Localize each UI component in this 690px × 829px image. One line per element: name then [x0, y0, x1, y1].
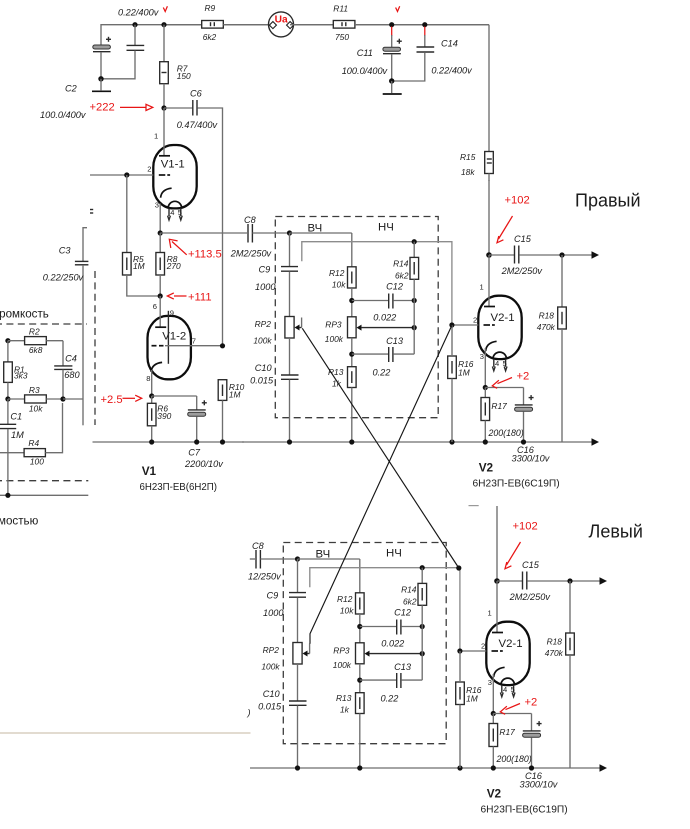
svg-text:6k8: 6k8	[29, 345, 43, 355]
svg-text:C6: C6	[190, 89, 203, 99]
svg-text:0.22/250v: 0.22/250v	[43, 272, 85, 282]
svg-text:R15: R15	[460, 152, 476, 162]
capacitor 0.22/400v left	[132, 22, 137, 27]
triode V1-1 envelope	[153, 145, 196, 208]
svg-text:1M: 1M	[11, 430, 24, 440]
gray fragment near left supply start	[469, 505, 479, 507]
svg-text:): )	[247, 708, 251, 718]
svg-text:3k3: 3k3	[14, 370, 28, 380]
svg-text:9: 9	[170, 308, 174, 317]
ground bus volume	[0, 494, 88, 496]
node grid R5	[124, 172, 129, 177]
svg-text:1M: 1M	[229, 390, 241, 400]
svg-text:+2.5: +2.5	[101, 394, 123, 406]
ground right	[389, 78, 394, 83]
svg-text:C7: C7	[188, 448, 201, 458]
svg-text:6Н23П-ЕВ(6Н2П): 6Н23П-ЕВ(6Н2П)	[140, 482, 217, 493]
svg-text:750: 750	[335, 32, 349, 42]
svg-text:C1: C1	[10, 412, 22, 422]
capacitor C11 electrolytic	[389, 22, 394, 27]
resistor R7	[163, 25, 165, 62]
svg-text:R11: R11	[333, 4, 348, 14]
svg-text:V1-1: V1-1	[161, 158, 185, 170]
svg-text:Правый: Правый	[575, 191, 641, 211]
svg-text:6k2: 6k2	[203, 32, 217, 42]
resistor R9	[167, 24, 202, 26]
tan artifact line	[0, 732, 251, 734]
svg-text:+113.5: +113.5	[188, 249, 222, 261]
cathode V1-1	[161, 188, 172, 198]
heater V1-1	[168, 201, 182, 208]
svg-text:4: 4	[170, 208, 174, 217]
svg-text:R2: R2	[29, 327, 40, 337]
svg-text:390: 390	[157, 411, 171, 421]
svg-text:0.22/400v: 0.22/400v	[431, 66, 473, 76]
red check mark 2	[396, 6, 400, 11]
svg-text:+111: +111	[188, 291, 212, 303]
capacitor C3	[83, 228, 87, 261]
svg-text:100.0/400v: 100.0/400v	[40, 110, 87, 120]
svg-text:Громкость: Громкость	[0, 308, 49, 321]
svg-text:мостью: мостью	[0, 515, 39, 528]
node +111	[158, 293, 163, 298]
resistor R10	[218, 380, 227, 401]
capacitor C4	[62, 341, 64, 366]
resistor R6	[151, 396, 153, 403]
resistor R2	[5, 338, 10, 343]
red check mark 1	[163, 6, 167, 11]
svg-text:2200/10v: 2200/10v	[184, 459, 224, 469]
svg-text:7: 7	[192, 336, 196, 345]
svg-text:3: 3	[155, 201, 159, 210]
svg-text:R4: R4	[28, 438, 39, 448]
svg-text:12/250v: 12/250v	[248, 572, 282, 582]
resistor R5	[126, 175, 128, 253]
svg-text:V1: V1	[142, 464, 157, 478]
svg-text:V1-2: V1-2	[162, 331, 186, 343]
svg-text:R3: R3	[29, 385, 40, 395]
svg-text:C3: C3	[59, 245, 72, 255]
svg-text:C14: C14	[441, 39, 458, 49]
svg-text:R9: R9	[205, 3, 216, 13]
lamp Ua	[223, 24, 272, 26]
svg-text:1: 1	[154, 131, 158, 140]
grid wire pin 2	[90, 174, 153, 176]
svg-text:680: 680	[64, 370, 80, 380]
resistor R4	[0, 452, 24, 454]
svg-text:2M2/250v: 2M2/250v	[230, 248, 273, 258]
svg-text:Левый: Левый	[589, 522, 643, 542]
svg-text:C2: C2	[65, 83, 77, 93]
red +222 annotation	[161, 105, 166, 110]
capacitor C2 electrolytic	[93, 45, 111, 49]
svg-text:18k: 18k	[461, 167, 475, 177]
anode lead pin 1	[163, 108, 165, 155]
node R7 top	[161, 22, 166, 27]
svg-text:150: 150	[177, 71, 191, 81]
node +113.5	[158, 230, 163, 235]
V1 ground rail extension	[93, 441, 245, 443]
node grid V1-2	[220, 343, 225, 348]
svg-text:C4: C4	[65, 353, 77, 363]
resistor R3	[5, 396, 10, 401]
anode lead pin 6	[159, 296, 161, 327]
svg-text:Uа: Uа	[275, 15, 288, 26]
svg-text:6: 6	[153, 302, 157, 311]
right channel tone/output stage	[242, 180, 599, 490]
top supply rail	[101, 25, 489, 45]
left channel tone/output stage	[250, 506, 607, 816]
capacitor C14	[422, 22, 427, 27]
svg-text:5: 5	[178, 208, 182, 217]
resistor R1	[7, 341, 9, 362]
node +2.5	[149, 393, 154, 398]
resistor R11	[290, 24, 333, 26]
resistor R15	[485, 152, 494, 174]
svg-text:+222: +222	[90, 102, 115, 114]
svg-text:2: 2	[147, 165, 151, 174]
svg-text:100.0/400v: 100.0/400v	[342, 66, 389, 76]
bottom C8 input stub	[250, 558, 256, 560]
volume box dashed edges	[94, 271, 96, 425]
svg-text:10k: 10k	[29, 404, 43, 414]
crossing diagonal A	[302, 328, 459, 568]
grid pin 7	[152, 345, 157, 347]
ground left	[98, 76, 103, 81]
crossing diagonal B	[310, 325, 452, 644]
resistor R8	[159, 233, 161, 253]
svg-text:0.22/400v: 0.22/400v	[118, 8, 160, 18]
fragment double dash	[90, 209, 93, 211]
capacitor C7 electrolytic	[152, 395, 197, 397]
svg-text:8: 8	[146, 374, 150, 383]
capacitor C6	[164, 107, 192, 109]
svg-text:100: 100	[30, 456, 44, 466]
capacitor C1	[7, 399, 9, 424]
cathode V1-2	[151, 362, 162, 372]
svg-text:0.47/400v: 0.47/400v	[177, 120, 219, 130]
svg-text:C11: C11	[357, 48, 373, 58]
svg-text:1M: 1M	[133, 261, 145, 271]
pin 9 line	[167, 311, 169, 364]
triode V1-2 envelope	[148, 316, 191, 379]
svg-text:270: 270	[166, 261, 181, 271]
